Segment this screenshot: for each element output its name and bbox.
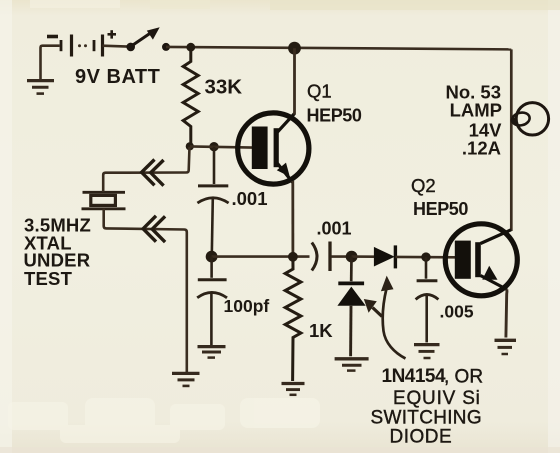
- svg-text:SWITCHING: SWITCHING: [371, 408, 482, 429]
- label No.53 LAMP 14V .12A: [445, 82, 502, 159]
- node junction emitter bus left: [206, 251, 218, 263]
- ground (C4): [414, 345, 440, 358]
- svg-text:HEP50: HEP50: [413, 199, 468, 219]
- svg-text:Q2: Q2: [411, 175, 436, 196]
- resistor R2 1K: [285, 257, 301, 381]
- diode D2 1N4154 (clamp): [337, 257, 365, 357]
- wire Q1 emitter vertical: [291, 181, 294, 257]
- node junction diode: [346, 251, 358, 263]
- wire crystal bottom to left ground: [104, 209, 187, 372]
- ground (Q2 emitter): [495, 340, 517, 354]
- node junction 1K top: [288, 252, 298, 262]
- wire Q2 emitter to ground: [506, 289, 507, 337]
- svg-text:HEP50: HEP50: [307, 106, 362, 126]
- clip chevrons bottom: [143, 216, 165, 242]
- capacitor C1 .001: [197, 147, 228, 255]
- label 3.5MHZ XTAL UNDER TEST: [24, 215, 92, 290]
- wire emitter bus: [212, 255, 310, 258]
- paper mottling bottom: [8, 398, 320, 443]
- wire Q1 base: [190, 146, 253, 147]
- node junction Q2 base / C4: [421, 252, 430, 261]
- wire top rail: [166, 47, 511, 50]
- svg-text:TEST: TEST: [24, 268, 73, 289]
- wire node to D1: [352, 255, 375, 258]
- capacitor C3 .001 coupling: [312, 242, 330, 272]
- capacitor C2 100pf: [197, 257, 227, 346]
- paper top strip tint: [30, 0, 560, 10]
- node junction Q1 collector: [288, 42, 301, 55]
- ground (left wire): [172, 373, 200, 386]
- crystal Y1: [82, 192, 126, 209]
- svg-text:.001: .001: [232, 188, 268, 209]
- label 1N4154, OR EQUIV Si SWITCHING DIODE: [371, 366, 484, 448]
- svg-text:EQUIV Si: EQUIV Si: [393, 388, 481, 409]
- ground (D2): [335, 359, 369, 371]
- svg-text:100pf: 100pf: [224, 296, 270, 316]
- ground (1K): [282, 384, 305, 395]
- node junction base-left: [186, 142, 194, 150]
- svg-text:1N4154: 1N4154: [382, 366, 446, 387]
- wire battery negative to ground: [41, 46, 60, 80]
- ground (100pf): [198, 347, 226, 358]
- transistor Q2 HEP50: [445, 224, 517, 296]
- svg-text:.001: .001: [317, 219, 352, 239]
- capacitor C4 .005: [416, 257, 439, 342]
- clip chevrons top: [142, 160, 164, 186]
- ground (battery): [27, 81, 54, 94]
- svg-text:LAMP: LAMP: [450, 100, 502, 121]
- svg-text:Q1: Q1: [307, 81, 332, 102]
- switch S1: [126, 27, 170, 51]
- annotation arrow (from label to diode): [381, 276, 406, 359]
- wire battery positive to switch: [103, 44, 129, 47]
- svg-text:.005: .005: [440, 302, 474, 322]
- svg-text:1K: 1K: [309, 320, 333, 341]
- diode D1 (series): [374, 245, 396, 268]
- wire C3 to node: [332, 255, 352, 258]
- wire Q1 collector vertical: [293, 48, 296, 114]
- transistor Q1 HEP50: [238, 113, 309, 184]
- node junction 33K top: [186, 43, 195, 52]
- svg-text:33K: 33K: [205, 76, 243, 99]
- svg-text:.12A: .12A: [462, 138, 501, 159]
- wire D1 to Q2 base: [395, 256, 456, 259]
- svg-text:DIODE: DIODE: [390, 427, 453, 448]
- annotation arrowhead (thick, pointing at D2): [364, 299, 382, 317]
- wire crystal top to base junction: [103, 147, 189, 192]
- node junction C1 top: [209, 142, 218, 151]
- lamp I1 No.53: [511, 103, 549, 135]
- svg-text:, OR: , OR: [444, 367, 483, 388]
- resistor R1 33K: [183, 47, 198, 146]
- svg-text:9V BATT: 9V BATT: [75, 66, 160, 88]
- battery BT1 9V: [47, 30, 116, 56]
- wire right vertical rail to Q2 collector: [510, 49, 513, 231]
